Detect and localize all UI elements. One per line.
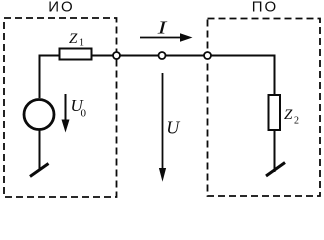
wire: left segment from source corner to Z1	[40, 56, 60, 99]
wire: main horizontal bus and drop into Z2	[93, 56, 275, 96]
voltage arrow U	[162, 73, 164, 172]
svg-text:2: 2	[294, 116, 299, 127]
svg-text:ИО: ИО	[48, 0, 74, 16]
node at U measurement point	[159, 52, 166, 59]
ground stroke (right)	[266, 163, 285, 177]
node at ИО output terminal	[113, 52, 120, 59]
svg-text:ПО: ПО	[252, 0, 278, 16]
ground stroke (left)	[30, 164, 49, 177]
resistor Z2	[269, 95, 281, 130]
svg-text:0: 0	[81, 108, 87, 120]
resistor Z1	[60, 49, 92, 60]
current arrow I	[140, 37, 181, 39]
source arrow U0	[65, 94, 67, 124]
block ИО (dashed box, measuring device)	[4, 18, 117, 197]
source U0 (circle symbol)	[24, 100, 54, 130]
node at ПО input terminal	[204, 52, 211, 59]
svg-text:U: U	[166, 118, 180, 138]
wire: below Z2 to ground	[274, 130, 276, 172]
wire: below source to ground	[39, 130, 41, 171]
svg-text:1: 1	[79, 38, 84, 49]
svg-text:Z: Z	[284, 107, 293, 123]
block ПО (dashed box, load)	[208, 19, 321, 197]
svg-text:Z: Z	[69, 31, 78, 47]
